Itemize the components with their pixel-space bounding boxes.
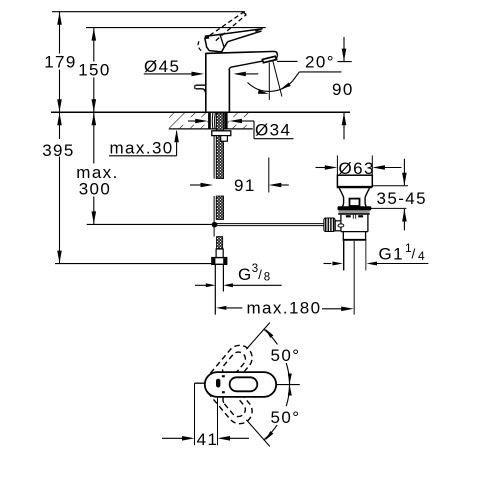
- dimension 90 bottom: [342, 112, 347, 139]
- svg-text:91: 91: [234, 176, 256, 195]
- shank hole edge right: [224, 113, 227, 129]
- top view rotated spout dashed lower: [205, 372, 252, 424]
- flex hose below junction: [214, 225, 223, 249]
- svg-text:max.30: max.30: [110, 139, 174, 158]
- angle arc 20deg: [248, 81, 294, 94]
- dimension max.300 line: [92, 112, 97, 224]
- dimension 150 text: [78, 60, 111, 79]
- svg-text:/: /: [412, 247, 417, 262]
- dimension 41 text: [196, 430, 218, 449]
- dimension 41 extension right: [217, 397, 219, 445]
- top view spout slot: [230, 377, 258, 391]
- drain overflow housing: [350, 199, 360, 206]
- dimension 91 left: [190, 183, 213, 188]
- extension line 395 bottom: [55, 263, 212, 265]
- dimension dia34 left arrow: [188, 119, 208, 124]
- threaded stud lower: [216, 196, 223, 220]
- svg-text:150: 150: [78, 60, 111, 79]
- shank hole edge left: [208, 113, 211, 129]
- dimension dia34 text: [255, 120, 291, 139]
- spout angle line 20deg: [273, 61, 282, 97]
- angle 50deg upper radial line: [246, 323, 269, 350]
- dimension max180 left: [216, 306, 243, 310]
- horizontal pop-up rod: [215, 224, 325, 226]
- drain tailpipe: [344, 241, 366, 315]
- dimension 150 line: [92, 28, 97, 113]
- supply pipe: [215, 264, 223, 314]
- dimension G3/8 left: [195, 283, 215, 287]
- drain locking collar: [338, 206, 372, 210]
- dimension 395 text: [42, 139, 76, 160]
- faucet pop-up knob: [195, 85, 206, 92]
- label max.30: [109, 130, 179, 158]
- svg-text:300: 300: [79, 180, 112, 199]
- dimension 35-45 bottom: [370, 208, 407, 230]
- extension line max.300 bottom: [87, 223, 215, 225]
- dimension 41 extension left: [194, 383, 196, 445]
- top view horizontal reference: [276, 384, 299, 386]
- hose connector: [216, 249, 223, 258]
- dimension max.300 text: [74, 163, 120, 198]
- dimension 179 text: [44, 53, 77, 72]
- svg-text:G1: G1: [379, 244, 404, 263]
- dimension dia45 right arrow: [233, 72, 258, 77]
- svg-text:20°: 20°: [305, 52, 335, 71]
- angle 50deg lower radial line: [246, 420, 269, 447]
- top view centerline dots: [222, 375, 225, 393]
- dimension 395 line: [57, 112, 62, 263]
- svg-text:G: G: [238, 265, 253, 284]
- dimension dia63 right: [372, 165, 401, 170]
- svg-text:/: /: [258, 267, 263, 282]
- faucet spout aerator: [262, 55, 277, 62]
- top view rotated spout dashed upper: [205, 345, 252, 397]
- dimension 91 text: [234, 176, 256, 195]
- label 50deg lower: [269, 407, 304, 427]
- dimension 41 left: [162, 436, 195, 441]
- drain rubber seal: [338, 210, 370, 214]
- label G1-1/4 text: [379, 241, 427, 263]
- drain body: [341, 215, 368, 240]
- dimension 41 right: [218, 436, 250, 441]
- svg-text:50°: 50°: [271, 408, 301, 427]
- svg-text:4: 4: [418, 249, 426, 263]
- drain dia63 extension lines: [337, 156, 372, 175]
- dimension 179 line: [57, 12, 62, 113]
- drain ball joint nut: [324, 218, 335, 232]
- faucet body outline: [205, 51, 277, 112]
- pop-up rod junction: [212, 222, 218, 228]
- countertop line: [51, 111, 350, 113]
- dimension 90 top: [338, 37, 352, 62]
- dimension G1-1/4 right: [367, 262, 429, 266]
- dimension 91 right: [269, 183, 289, 188]
- dimension 35-45 text: [377, 189, 427, 208]
- top view rear knob line: [195, 382, 205, 384]
- dimension dia63 text: [339, 159, 375, 178]
- angle 50deg upper arc: [264, 329, 292, 389]
- svg-text:179: 179: [44, 53, 77, 72]
- svg-text:Ø34: Ø34: [255, 120, 291, 139]
- flex hose curves in hole: [212, 113, 215, 129]
- threaded stud upper: [216, 113, 223, 179]
- svg-text:41: 41: [197, 430, 219, 449]
- pull rod lower: [213, 196, 215, 224]
- dimension G1-1/4 left: [324, 262, 343, 266]
- label 50deg upper: [269, 345, 304, 365]
- dimension dia34 leader: [254, 121, 294, 139]
- dimension 90 text: [332, 80, 354, 99]
- extension line lever height 150: [86, 27, 266, 29]
- top view faucet body outline: [205, 372, 276, 397]
- dimension dia34 right arrow: [229, 119, 254, 124]
- spout vertical reference line: [268, 63, 270, 100]
- faucet lever blade: [206, 28, 263, 41]
- counter slab hatch right: [228, 113, 253, 128]
- svg-text:50°: 50°: [271, 346, 301, 365]
- svg-text:max.180: max.180: [247, 299, 322, 318]
- dimension max180 right: [322, 307, 354, 312]
- svg-text:90: 90: [332, 80, 354, 99]
- dimension 35-45 top: [372, 159, 408, 186]
- dimension dia45 leader: [144, 72, 204, 77]
- dimension dia45 text: [144, 57, 180, 76]
- faucet lever raised dashed: [198, 12, 246, 52]
- hatch halo for dia34 arrows: [183, 117, 253, 125]
- mounting nut: [221, 136, 228, 142]
- label G3/8 text: [238, 263, 272, 284]
- label 20deg text: [305, 52, 335, 71]
- faucet lever knuckle: [205, 34, 228, 52]
- drain flange: [337, 175, 373, 187]
- top view lever marker: [216, 379, 220, 388]
- dimension max180 text: [247, 299, 322, 318]
- svg-text:395: 395: [42, 141, 75, 160]
- mounting washer: [212, 131, 231, 136]
- extension line top (raised lever height): [52, 11, 245, 13]
- counter slab hatch left: [169, 113, 208, 128]
- svg-text:8: 8: [264, 271, 272, 283]
- angle 50deg lower arc: [264, 380, 292, 440]
- pull rod upper: [213, 136, 215, 179]
- dimension dia63 left: [316, 165, 338, 170]
- extension line 91 right: [268, 158, 270, 193]
- dimension G3/8 right: [223, 283, 281, 287]
- drain joint connector: [335, 221, 344, 231]
- G3/8 nut: [212, 258, 227, 265]
- svg-text:35-45: 35-45: [377, 189, 427, 208]
- drain neck: [339, 188, 369, 206]
- counter slab bottom line: [169, 128, 253, 130]
- label 20deg leader: [277, 61, 342, 80]
